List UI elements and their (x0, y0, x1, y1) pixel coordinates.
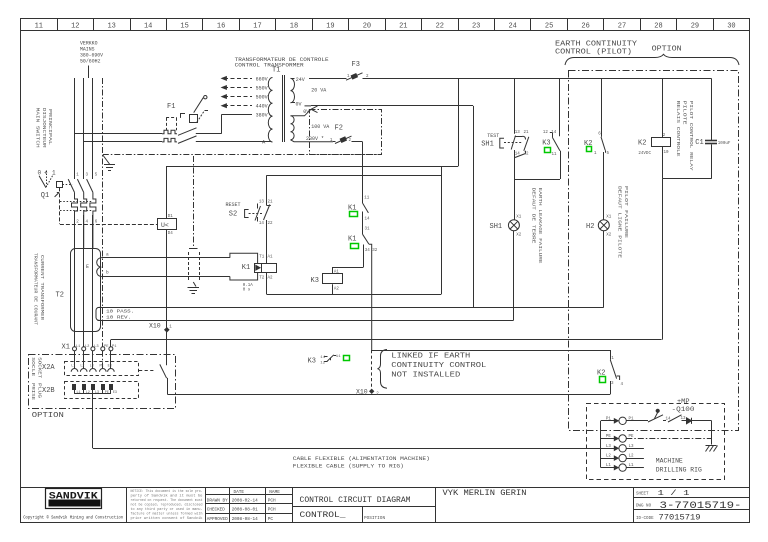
plug X2B dashed box (65, 382, 139, 399)
label 10 PASS/REV (106, 309, 134, 315)
wire 24V lead (291, 78, 295, 80)
ruler numbers (35, 22, 736, 30)
svg-text:A2: A2 (334, 287, 340, 291)
svg-text:34: 34 (365, 249, 371, 253)
svg-text:E3: E3 (108, 364, 112, 368)
marker K2 contact top (587, 147, 592, 152)
vertical labels socle/prise (30, 357, 35, 377)
svg-text:NAME: NAME (269, 490, 280, 495)
svg-text:1: 1 (330, 139, 333, 143)
svg-text:0: 0 (38, 169, 42, 176)
svg-text:11: 11 (336, 355, 341, 359)
label RESET S2 (226, 202, 241, 208)
wire U< branch (166, 166, 168, 218)
svg-text:50/60Hz: 50/60Hz (80, 59, 101, 65)
transformer T2 box (71, 249, 101, 332)
SANDVIK logo (46, 489, 102, 509)
wire mains L1 vertical (74, 78, 76, 179)
bus REV y320.4 (98, 320, 514, 322)
approval table (234, 490, 245, 495)
svg-text:ID-CODE: ID-CODE (636, 517, 654, 521)
svg-text:F1: F1 (167, 103, 175, 111)
svg-text:PE: PE (104, 345, 109, 349)
svg-text:20 VA: 20 VA (311, 88, 326, 94)
svg-text:1: 1 (594, 152, 597, 156)
svg-text:NOT INSTALLED: NOT INSTALLED (391, 371, 461, 379)
svg-text:L3: L3 (606, 445, 612, 449)
svg-text:K3: K3 (542, 139, 550, 147)
wire 0V leads junction (291, 102, 296, 104)
svg-text:CONTINUITY CONTROL: CONTINUITY CONTROL (391, 362, 487, 370)
capacitor C1 (711, 78, 713, 140)
contact K2 bottom 1-3-4 (610, 350, 619, 394)
svg-text:C1: C1 (695, 139, 703, 147)
S2 actuator (245, 210, 249, 218)
svg-text:SOCLE: SOCLE (30, 357, 35, 377)
svg-text:24VDC: 24VDC (638, 152, 651, 156)
cable box 10 PASS/REV (96, 307, 101, 320)
wire PE bus horizontal dash-dot (103, 154, 382, 156)
terminal X1 circles (73, 347, 77, 351)
svg-text:0.1A: 0.1A (243, 284, 254, 288)
svg-text:21: 21 (268, 201, 274, 205)
vertical label current transformer (33, 253, 38, 325)
svg-text:PC: PC (268, 517, 274, 522)
svg-text:X2B: X2B (42, 387, 55, 395)
svg-text:380-690V: 380-690V (80, 53, 104, 59)
svg-text:660V: 660V (256, 76, 268, 82)
svg-text:T2: T2 (259, 276, 265, 280)
relay K1 coil boxes (255, 264, 262, 273)
svg-text:14: 14 (320, 356, 325, 360)
svg-text:PILOT FAILURE: PILOT FAILURE (623, 186, 628, 239)
transformer T1 core (282, 75, 284, 142)
svg-text:F3: F3 (352, 61, 360, 69)
svg-text:K2: K2 (638, 139, 646, 147)
svg-text:K3: K3 (308, 357, 316, 365)
svg-text:16: 16 (217, 22, 225, 30)
svg-text:22: 22 (268, 222, 274, 226)
svg-text:14: 14 (259, 222, 265, 226)
svg-text:12: 12 (543, 131, 549, 135)
svg-text:DISJONCTEUR: DISJONCTEUR (41, 108, 46, 149)
svg-text:SHEET: SHEET (636, 492, 649, 496)
svg-text:DEFAUT LIGNE PILOTE: DEFAUT LIGNE PILOTE (617, 186, 622, 259)
bridge 13-21 (515, 136, 523, 138)
T1 secondary winding 230V (291, 116, 295, 140)
wire 0V drop x473 (473, 106, 475, 308)
svg-text:500V: 500V (256, 95, 268, 101)
F1 auxiliary contact (180, 114, 182, 118)
svg-text:550V: 550V (256, 85, 268, 91)
contact SH1 21-22 (524, 137, 529, 151)
svg-text:TRANSFORMATEUR DE COURANT: TRANSFORMATEUR DE COURANT (33, 253, 38, 325)
machine PE dash-dot (626, 438, 711, 440)
svg-text:DRILLING RIG: DRILLING RIG (656, 467, 702, 474)
svg-text:DWG NO: DWG NO (636, 505, 652, 509)
svg-text:12: 12 (320, 361, 325, 365)
switch Q1 pole blades (68, 179, 74, 192)
svg-text:D4: D4 (168, 232, 174, 236)
svg-text:b: b (106, 270, 109, 276)
svg-text:S2: S2 (229, 211, 237, 219)
Q1 pin numbers (76, 174, 79, 178)
svg-text:OPTION: OPTION (32, 412, 64, 420)
svg-text:F2: F2 (335, 125, 343, 133)
svg-text:3: 3 (611, 382, 614, 386)
svg-text:23: 23 (472, 22, 480, 30)
Q1 trip link dash-dot to U< (59, 187, 61, 224)
svg-text:19: 19 (326, 22, 334, 30)
svg-text:12: 12 (71, 22, 79, 30)
svg-text:CHECKED: CHECKED (207, 509, 225, 513)
svg-text:FLEXIBLE CABLE (SUPPLY TO RIG): FLEXIBLE CABLE (SUPPLY TO RIG) (293, 463, 404, 469)
svg-text:10 PASS.: 10 PASS. (106, 309, 134, 315)
svg-text:2008-02-14: 2008-02-14 (232, 498, 258, 503)
svg-text:P1: P1 (112, 345, 117, 349)
svg-text:L2: L2 (85, 345, 90, 349)
marker K3 contact top (545, 148, 551, 153)
svg-text:11: 11 (35, 22, 43, 30)
svg-text:PCH: PCH (268, 508, 276, 513)
F1 striker dashed box (166, 118, 168, 130)
svg-text:returned on request. The docum: returned on request. The document must (131, 498, 203, 502)
screen earth dash-dot (193, 156, 195, 248)
svg-text:PRINCIPAL: PRINCIPAL (47, 109, 52, 146)
svg-text:29: 29 (691, 22, 699, 30)
svg-text:4: 4 (621, 383, 624, 387)
svg-text:30: 30 (727, 22, 735, 30)
wire bottoms join y179 (515, 179, 560, 181)
svg-text:RELAIS CONTROLE: RELAIS CONTROLE (675, 101, 680, 158)
svg-text:EARTH CONTINUITY: EARTH CONTINUITY (555, 41, 638, 49)
T1 secondary winding 24V (291, 78, 295, 102)
svg-text:K1: K1 (348, 235, 356, 243)
svg-text:100uF: 100uF (718, 142, 731, 146)
svg-text:L3: L3 (95, 391, 99, 395)
svg-text:LINKED IF EARTH: LINKED IF EARTH (391, 352, 470, 360)
label control transformer (235, 57, 329, 63)
svg-text:24: 24 (508, 22, 516, 30)
cable screen dashed (188, 252, 190, 282)
svg-text:U<: U< (161, 222, 169, 229)
svg-text:380V: 380V (256, 113, 268, 119)
label VERKKO mains (80, 41, 98, 47)
svg-text:L1: L1 (77, 391, 81, 395)
wire horizontal y166 (167, 166, 459, 168)
svg-text:perty of Sandvik and it must b: perty of Sandvik and it must be (131, 493, 203, 497)
svg-text:A1: A1 (268, 256, 274, 260)
svg-text:VERKKO: VERKKO (80, 41, 98, 47)
notice small print (131, 489, 203, 493)
lamp SH1 (508, 220, 519, 231)
svg-text:L1: L1 (71, 364, 75, 368)
svg-text:APPROVED: APPROVED (207, 518, 229, 522)
svg-text:TEST: TEST (487, 133, 499, 139)
machine drilling rig dashed box (587, 404, 725, 480)
svg-text:11: 11 (552, 153, 558, 157)
wire 230V lead (291, 140, 334, 142)
T1 primary taps dashed (224, 78, 252, 80)
plug pins X2B (73, 385, 76, 390)
svg-text:Q1: Q1 (41, 192, 49, 200)
wire y350 to K2 contact (372, 350, 611, 352)
wire phases below Q1 (74, 215, 76, 347)
wire VERKKO feeder drop (88, 66, 90, 79)
Q1 trip dotted links (60, 201, 93, 203)
svg-text:OPTION: OPTION (652, 45, 682, 53)
socket contacts X2A (71, 369, 78, 372)
fuse-switch F1 pole 1 (75, 133, 163, 135)
svg-text:not be copied, reproduced, dis: not be copied, reproduced, disclosed (131, 502, 203, 506)
svg-text:K3: K3 (311, 277, 319, 285)
svg-text:PE: PE (100, 364, 104, 368)
svg-text:14: 14 (365, 217, 371, 221)
plug bridge bus (75, 393, 111, 395)
svg-text:X10: X10 (356, 388, 368, 395)
contact SH1 13-14 (511, 136, 515, 150)
svg-text:3: 3 (86, 174, 89, 178)
svg-text:22: 22 (524, 152, 530, 156)
vertical label pilot failure (617, 186, 622, 259)
svg-text:MAINS: MAINS (80, 47, 95, 53)
svg-text:P1: P1 (606, 417, 612, 421)
svg-text:L2: L2 (80, 364, 84, 368)
svg-text:14: 14 (144, 22, 152, 30)
wire 24V drop x458 (458, 78, 460, 166)
svg-text:21: 21 (399, 22, 407, 30)
svg-text:27: 27 (618, 22, 626, 30)
svg-text:+: + (44, 169, 48, 176)
svg-text:14: 14 (551, 131, 557, 135)
svg-text:32: 32 (372, 249, 378, 253)
machine ground (706, 445, 717, 447)
svg-text:CONTROL TRANSFORMER: CONTROL TRANSFORMER (235, 62, 304, 68)
relay K1 measuring input steps (230, 253, 258, 263)
svg-text:28: 28 (654, 22, 662, 30)
wire S2 feed y175.3 (267, 175, 441, 177)
svg-text:T2: T2 (56, 292, 64, 300)
svg-text:230V *: 230V * (306, 136, 324, 142)
svg-text:2: 2 (349, 139, 352, 143)
T2 measuring coil (97, 258, 102, 277)
wire K2/C1 join (663, 178, 712, 180)
SH1 actuator (500, 138, 504, 148)
svg-text:X1: X1 (606, 215, 612, 219)
machine connector left rail (600, 421, 602, 468)
svg-text:to any third party or used in: to any third party or used in manu- (131, 507, 203, 511)
svg-text:CONTROL_: CONTROL_ (300, 511, 346, 520)
svg-text:-Q100: -Q100 (672, 406, 695, 413)
contact K1 11-14 (363, 203, 369, 213)
svg-text:X1: X1 (62, 343, 70, 351)
svg-text:PLUG: PLUG (36, 383, 41, 399)
switch X2A interlock (160, 364, 167, 378)
svg-text:L2: L2 (86, 391, 90, 395)
wire PE vertical dash-dot (102, 78, 104, 347)
svg-text:PCH: PCH (268, 498, 276, 503)
Q1 handle symbol (39, 176, 46, 188)
machine P1 switch and diode (626, 420, 648, 422)
contact K3 12-14-11 (559, 78, 561, 136)
svg-text:L1: L1 (606, 464, 612, 468)
fuse-switch F1 pole 2 (84, 141, 162, 143)
svg-text:X2: X2 (516, 234, 522, 238)
svg-text:PRISE: PRISE (30, 383, 35, 401)
wire X2A switch to y394 (167, 378, 169, 394)
wire mains L3 vertical (92, 78, 94, 179)
wire plug to machine (92, 394, 94, 448)
T1 tap labels (256, 76, 268, 82)
svg-text:NOTICE: This document is the s: NOTICE: This document is the sole pro- (131, 489, 203, 493)
svg-text:17: 17 (253, 22, 261, 30)
option dash-dot box X2 (29, 355, 176, 409)
pushbutton S2 NC 21-22 (266, 175, 268, 205)
vertical label pilot control relay (675, 101, 680, 158)
svg-text:4: 4 (86, 221, 89, 225)
brace linked note (378, 350, 388, 389)
lamp H2 (598, 220, 609, 231)
svg-text:T1: T1 (259, 256, 265, 260)
wire pilot line y339.6 (111, 339, 662, 341)
svg-text:SH1: SH1 (481, 140, 494, 148)
svg-text:77015719: 77015719 (659, 513, 701, 522)
svg-text:MAIN SWITCH: MAIN SWITCH (35, 108, 40, 149)
marker K2 contact bottom (600, 377, 606, 383)
fuse F3 (344, 78, 347, 80)
svg-text:L2: L2 (606, 455, 612, 459)
svg-text:15: 15 (180, 22, 188, 30)
svg-text:PILOT CONTROL RELAY: PILOT CONTROL RELAY (688, 101, 693, 172)
machine L stubs (626, 448, 644, 450)
svg-text:L1: L1 (76, 345, 81, 349)
vertical label main switch (35, 108, 40, 149)
relay U1 undervoltage U< (158, 219, 177, 230)
wire mains L2 vertical (83, 78, 85, 179)
svg-text:E: E (86, 264, 89, 270)
marker K1 contact a (350, 212, 358, 217)
wire 24V drop SH1 (514, 78, 516, 133)
relay K3 coil (323, 274, 343, 284)
link dashed X10 (371, 350, 373, 390)
svg-text:RESET: RESET (226, 202, 241, 208)
vertical label earth leakage failure (531, 188, 536, 245)
bus PASS y307.4 (98, 307, 604, 309)
svg-text:Copyright © Sandvik Mining and: Copyright © Sandvik Mining and Construct… (23, 513, 123, 520)
copyright (23, 513, 123, 520)
title block (21, 487, 750, 522)
svg-text:6: 6 (598, 133, 601, 137)
svg-text:1: 1 (611, 357, 614, 361)
svg-text:K1: K1 (242, 264, 250, 272)
svg-text:CONTROL CIRCUIT DIAGRAM: CONTROL CIRCUIT DIAGRAM (300, 496, 411, 505)
svg-text:11: 11 (364, 197, 370, 201)
svg-text:SH1: SH1 (490, 223, 503, 231)
svg-text:18: 18 (290, 22, 298, 30)
wire U< down through X10 (166, 229, 168, 365)
svg-text:2008-08-01: 2008-08-01 (232, 508, 258, 513)
socket X2A dashed box (65, 362, 139, 376)
svg-text:POSITION: POSITION (364, 516, 385, 521)
svg-text:X10: X10 (149, 322, 161, 329)
svg-text:5: 5 (95, 174, 98, 178)
ground below screen (193, 282, 196, 287)
contact K2 6-5 (601, 78, 603, 136)
svg-text:1: 1 (169, 326, 172, 330)
svg-text:X1: X1 (516, 215, 522, 219)
svg-text:X2A: X2A (42, 364, 55, 372)
svg-text:0 s: 0 s (243, 289, 251, 293)
svg-text:CABLE FLEXIBLE (ALIMENTATION M: CABLE FLEXIBLE (ALIMENTATION MACHINE) (293, 456, 430, 462)
svg-text:PILOTE: PILOTE (682, 101, 687, 126)
svg-text:A1: A1 (334, 270, 340, 274)
wire 0V rail (311, 105, 473, 107)
svg-text:3-77015719-: 3-77015719- (660, 500, 742, 512)
svg-text:31: 31 (365, 228, 371, 232)
contact K1 31-34-32 (363, 234, 369, 244)
dash-dot box around F2 (310, 110, 382, 155)
Q1 thermal elements (72, 192, 78, 248)
svg-text:5: 5 (607, 152, 610, 156)
svg-text:CONTROL (PILOT): CONTROL (PILOT) (555, 49, 632, 57)
wire T2 b lead (101, 276, 230, 278)
svg-text:13: 13 (107, 22, 115, 30)
svg-text:L3: L3 (90, 364, 94, 368)
wire coil return x441 (441, 166, 443, 294)
wire K1 coil bottom bus (266, 272, 268, 294)
svg-text:20: 20 (363, 22, 371, 30)
svg-text:0V: 0V (296, 102, 302, 108)
svg-text:CURRENT TRANSFORMER: CURRENT TRANSFORMER (39, 255, 44, 321)
relay K2 coil (662, 78, 664, 137)
svg-text:EARTH LEAKAGE FAILURE: EARTH LEAKAGE FAILURE (537, 188, 542, 265)
ground earth symbol on PE (103, 155, 110, 164)
svg-text:25: 25 (545, 22, 553, 30)
svg-text:prior written consent of Sandv: prior written consent of Sandvik (131, 516, 203, 520)
svg-text:MACHINE: MACHINE (656, 458, 683, 465)
svg-text:T1: T1 (272, 67, 280, 75)
svg-text:PE: PE (606, 435, 612, 439)
svg-text:21: 21 (524, 131, 530, 135)
svg-text:H2: H2 (586, 223, 594, 231)
svg-text:13: 13 (259, 201, 265, 205)
labels U< (168, 215, 174, 219)
fuse F2 (333, 141, 336, 143)
brace option (565, 54, 739, 65)
svg-text:10: 10 (664, 151, 670, 155)
svg-text:PE: PE (105, 391, 109, 395)
wire T2 a lead (101, 257, 230, 259)
svg-text:440V: 440V (256, 104, 268, 110)
svg-text:D1: D1 (168, 215, 174, 219)
svg-text:E3: E3 (113, 391, 117, 395)
marker K3 linked contact (344, 356, 350, 361)
transformer T1 primary winding (268, 78, 272, 143)
svg-text:DEFAUT DE TERRE: DEFAUT DE TERRE (531, 188, 536, 245)
svg-text:1: 1 (52, 169, 56, 176)
svg-text:13: 13 (515, 131, 521, 135)
label TEST SH1 (487, 133, 499, 139)
svg-text:L3: L3 (94, 345, 99, 349)
svg-text:SOCKET: SOCKET (36, 357, 41, 379)
svg-text:14: 14 (515, 152, 521, 156)
svg-text:DATE: DATE (234, 490, 245, 495)
svg-text:1: 1 (76, 174, 79, 178)
note cable flexible (293, 456, 430, 462)
contact K3 linked (324, 355, 336, 362)
svg-text:X2: X2 (606, 234, 612, 238)
svg-text:a: a (106, 253, 109, 258)
